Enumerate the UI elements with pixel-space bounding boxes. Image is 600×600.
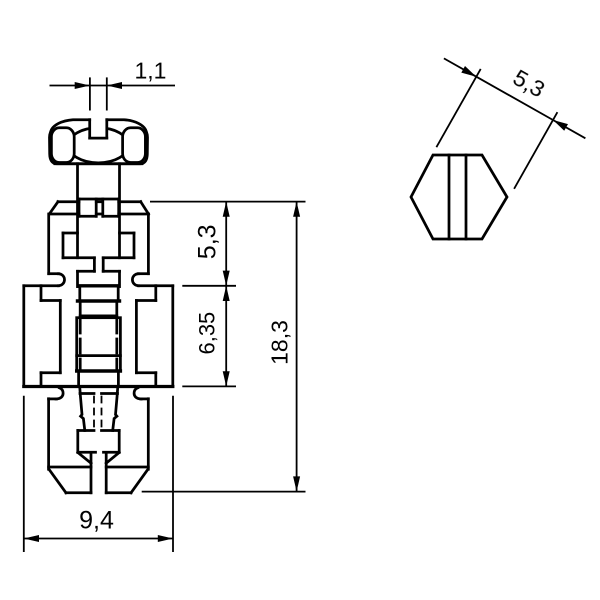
center slot wall left [90, 454, 93, 493]
upper body left edge [47, 214, 50, 274]
center rect inner line [77, 354, 121, 357]
center rect bottom thick [77, 369, 121, 372]
arrow 6,35 down [223, 371, 230, 386]
center step bottom [80, 315, 117, 318]
undercut arc right [132, 274, 138, 286]
foot bottom right [106, 491, 131, 494]
upper right window right [133, 233, 136, 258]
slot band inner-right wall [101, 199, 104, 216]
head bottom edge [55, 162, 142, 165]
stem hidden slot right [101, 397, 103, 430]
anchor box bottom [78, 451, 96, 454]
slot band top [79, 198, 119, 201]
hexagon top view [411, 155, 507, 239]
upper right window top [120, 232, 135, 235]
bottom section top left [49, 398, 57, 401]
center notch left wall [93, 258, 96, 272]
stem hidden shoulder line [80, 392, 94, 395]
channel wall left lower [76, 271, 79, 286]
anchor box right wall [118, 431, 121, 453]
inner ledge left [78, 270, 95, 273]
dim 9,4 ext line right [172, 396, 174, 552]
arrow 5,3 up [223, 202, 230, 217]
middle left window right [59, 301, 62, 373]
middle inner wall left bottom stub [40, 373, 43, 387]
neck right wall [118, 164, 121, 258]
stem hidden slot left [93, 397, 95, 430]
center stub right [117, 371, 120, 387]
head right facet [123, 128, 146, 163]
anchor box left wall [76, 431, 79, 453]
undercut top right [138, 272, 148, 275]
head slot right wall [105, 120, 108, 138]
svg-text:1,1: 1,1 [135, 57, 167, 83]
dim line 18,3 [296, 202, 298, 492]
undercut top left [49, 272, 59, 275]
upper left window top [63, 232, 78, 235]
upper body chamfer base [49, 213, 148, 216]
arrow 9,4 right [158, 535, 173, 542]
channel wall right lower [118, 271, 121, 286]
hidden line left in rect [79, 319, 82, 370]
slot rect mask right [104, 200, 117, 215]
middle left window bottom [41, 371, 60, 374]
svg-text:18,3: 18,3 [267, 320, 293, 365]
hexagon slot left line [448, 155, 451, 239]
center wall right to bar [117, 287, 120, 301]
dim 9,4 ext line left [23, 396, 25, 552]
middle right window top [136, 299, 155, 302]
middle inner wall right bottom stub [154, 373, 157, 387]
center stub left [77, 371, 80, 387]
hidden line right in rect [115, 319, 118, 370]
leg shelf left [49, 466, 91, 469]
neck left wall [76, 164, 79, 258]
arrow 18,3 down [293, 476, 300, 491]
hex arrow 1 [461, 66, 476, 77]
arrow 9,4 left [24, 535, 39, 542]
center wall left to bar [78, 287, 81, 301]
stem taper left with barb [80, 388, 85, 431]
inner ledge right [103, 270, 119, 273]
upper body left chamfer [49, 202, 58, 214]
slot chamfer left [78, 453, 91, 464]
head slot bottom [90, 137, 107, 140]
hex arrow 2 [553, 120, 568, 131]
head slot mask [91, 118, 106, 137]
middle left window top [41, 299, 60, 302]
middle section top edge center band [79, 284, 118, 287]
ext line top (18,3 / 5,3) [150, 201, 306, 203]
middle section bottom edge [24, 385, 173, 388]
middle section left edge [22, 286, 25, 387]
lower undercut arc left [56, 388, 63, 399]
center notch right wall [102, 258, 105, 272]
head left facet [51, 128, 74, 163]
dim 1,1 ext line left [89, 77, 91, 110]
center slot wall right [105, 454, 108, 493]
window bottom line left [63, 256, 94, 259]
center step left [79, 301, 82, 316]
slot band left wall [78, 199, 81, 216]
dim 1,1 ext line right [106, 77, 108, 110]
stem taper right with barb [113, 388, 118, 431]
ext line y=386.4 [182, 385, 236, 387]
head outline [49, 120, 147, 164]
svg-text:6,35: 6,35 [194, 312, 219, 355]
middle right window left [135, 301, 138, 373]
hex ext line A [436, 69, 480, 147]
anchor box top [78, 429, 94, 432]
svg-text:9,4: 9,4 [79, 506, 114, 534]
arrow 5,3 down / 6,35 up pair [223, 271, 230, 286]
middle right window bottom [136, 371, 155, 374]
hex dim line [444, 58, 476, 76]
slot chamfer right [106, 453, 119, 464]
upper body right edge [147, 214, 150, 274]
svg-text:5,3: 5,3 [509, 64, 550, 102]
middle section top edge right [138, 284, 172, 287]
svg-text:5,3: 5,3 [194, 224, 222, 259]
dim 1,1 line [50, 85, 176, 87]
middle section top edge left [24, 284, 59, 287]
center big rect [77, 318, 121, 371]
arrow 1,1 right [107, 82, 122, 89]
hexagon slot right line [465, 155, 468, 239]
upper body right chamfer [141, 202, 149, 214]
slot band bottom left [79, 215, 96, 218]
lower undercut arc right [134, 388, 141, 399]
upper body top edge [58, 200, 141, 203]
arrow 18,3 up [293, 202, 300, 217]
undercut arc left [59, 274, 65, 286]
middle inner wall right top stub [154, 286, 157, 301]
slot band inner-left wall [95, 199, 98, 216]
foot chamfer left [49, 469, 66, 493]
ext line y=285.8 [182, 285, 236, 287]
middle inner wall left top stub [40, 286, 43, 301]
slot rect mask left [80, 200, 95, 215]
foot chamfer right [131, 469, 148, 493]
center step right [115, 301, 118, 316]
center thick bar [78, 299, 120, 302]
window bottom line right [103, 256, 134, 259]
arrow 1,1 left [75, 82, 90, 89]
head dome ellipse [68, 128, 128, 163]
slot band bottom right [103, 215, 119, 218]
upper left window left [62, 233, 65, 258]
ext line bottom (18,3) [142, 491, 306, 493]
bottom section top right [141, 398, 149, 401]
slot band right wall [117, 199, 120, 216]
leg shelf right [106, 466, 148, 469]
head slot left wall [88, 120, 91, 138]
hex ext line B [514, 112, 557, 189]
bottom section right edge [147, 399, 150, 470]
middle section right edge [171, 286, 174, 387]
bottom section left edge [47, 399, 50, 470]
dim line 5,3 / 6,35 [225, 202, 227, 387]
dim 9,4 line [24, 538, 173, 540]
foot bottom left [66, 491, 91, 494]
